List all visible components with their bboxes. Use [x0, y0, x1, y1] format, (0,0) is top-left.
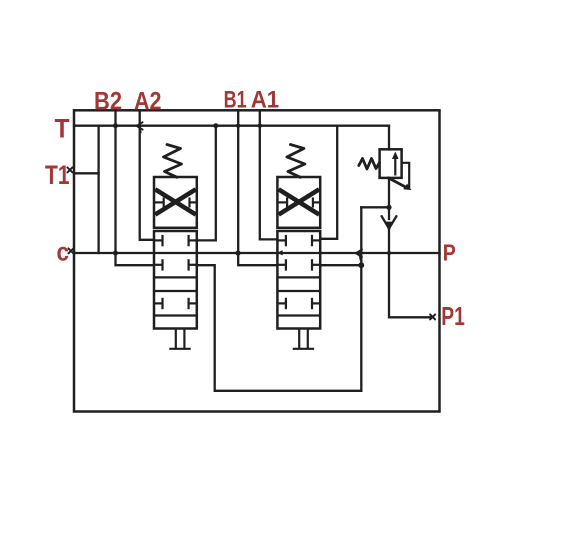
wire T drop to c line	[97, 126, 99, 253]
directional valve V1 port row 2	[277, 259, 320, 270]
directional valve V2 spring	[164, 145, 182, 178]
wire relief branch horizontal	[361, 206, 389, 208]
arrow mark on P line inside valve	[277, 250, 282, 255]
directional valve V2 port row 3	[154, 298, 197, 309]
directional valve V1 spring	[287, 145, 305, 178]
svg-text:P: P	[443, 240, 456, 266]
wire relief branch vertical	[360, 207, 362, 390]
check valve CV1	[382, 216, 397, 231]
svg-text:T: T	[55, 114, 70, 144]
wire left valve A port to bottom run	[197, 265, 361, 391]
junction dot relief branch	[386, 205, 391, 210]
wire right valve B port to T line	[320, 126, 337, 239]
junction dot T/B2	[113, 123, 118, 128]
directional valve V2 port row 2	[154, 259, 197, 270]
enclosure border	[74, 110, 440, 411]
wire B1 riser	[238, 110, 277, 265]
svg-text:c: c	[57, 237, 70, 267]
svg-text:A1: A1	[251, 87, 280, 114]
wire T line	[74, 125, 389, 127]
junction dot c/B1	[235, 250, 240, 255]
directional valve V1 port row 3	[277, 298, 320, 309]
junction dot c/B2	[113, 251, 118, 256]
arrow mark on P line	[356, 249, 362, 260]
directional valve V1 stem	[293, 329, 314, 349]
svg-text:B2: B2	[94, 88, 122, 116]
relief valve RV1	[359, 149, 412, 190]
wire A1 riser	[260, 110, 278, 239]
wire right valve A port to node	[320, 264, 361, 266]
junction dot T/B1	[236, 124, 240, 128]
port mark P1	[430, 314, 435, 319]
wire B2 riser	[116, 110, 155, 265]
wire T1 stub	[74, 172, 99, 174]
svg-text:B1: B1	[224, 87, 247, 114]
svg-text:A2: A2	[134, 88, 162, 116]
directional valve V1 body	[277, 231, 320, 329]
directional valve V1 port row 1	[277, 235, 320, 246]
arrow mark on T line at A2	[137, 122, 143, 132]
junction dot T/A1	[258, 124, 262, 128]
svg-text:T1: T1	[45, 160, 70, 190]
directional valve V1 crossed-arrows position box	[277, 177, 320, 228]
directional valve V2 body	[154, 231, 197, 329]
wire A2 riser	[140, 110, 154, 240]
wire c-P line	[74, 252, 440, 254]
wire check valve to P and P1	[389, 229, 432, 317]
port mark T1	[67, 167, 72, 172]
wire relief valve to check valve	[388, 178, 390, 219]
directional valve V2 stem	[169, 329, 190, 349]
wire T line to relief valve	[388, 126, 390, 150]
directional valve V2 crossed-arrows position box	[154, 177, 197, 228]
svg-text:P1: P1	[441, 301, 465, 331]
junction dot T/left valve	[213, 123, 218, 128]
wire left valve B port to T line	[197, 126, 216, 241]
port mark c	[68, 248, 73, 253]
junction dot A node	[358, 262, 364, 268]
directional valve V2 port row 1	[154, 235, 197, 246]
junction dot P/check valve	[387, 251, 391, 255]
